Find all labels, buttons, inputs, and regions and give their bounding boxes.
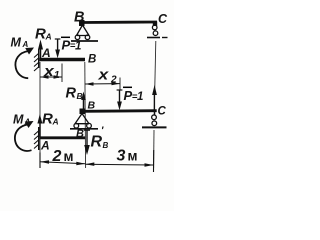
label P=1 (upper) (61, 37, 81, 52)
moment arrow M_A (lower) (15, 121, 34, 151)
dimension x1 (40, 63, 62, 82)
moment arrow M_A (upper) (15, 48, 34, 79)
svg-text:A: A (40, 139, 50, 153)
middle beam B-C (82, 109, 157, 112)
svg-text:C: C (158, 12, 168, 26)
svg-text:B: B (103, 141, 109, 150)
svg-text:B: B (88, 54, 96, 66)
load arrow P=1 (upper) (55, 39, 61, 58)
projection line at C (upper part) (154, 41, 156, 110)
ground line under B (upper) (71, 40, 98, 42)
svg-text:M: M (11, 36, 22, 50)
svg-text:3: 3 (117, 148, 126, 165)
svg-text:2: 2 (110, 75, 117, 86)
svg-text:R: R (66, 86, 77, 102)
ground line under C (upper) (147, 37, 160, 39)
label P=1 (middle) (123, 87, 143, 103)
dimension x2 (85, 67, 120, 90)
svg-text:2: 2 (52, 148, 62, 165)
svg-text:B: B (77, 91, 83, 101)
svg-text:1: 1 (54, 70, 60, 81)
fixed support at A (lower): wall line + hatching (34, 127, 39, 150)
svg-text:B: B (74, 10, 84, 26)
svg-text:м: м (64, 149, 74, 164)
reaction arrow R_A (upper) (38, 40, 43, 60)
pin nub at C end of upper beam (153, 22, 157, 27)
svg-text:C: C (158, 106, 167, 118)
projection line at C (lower part) (153, 130, 155, 168)
roller support B (upper) (75, 25, 90, 40)
svg-text:x: x (97, 67, 109, 84)
svg-text:1: 1 (137, 91, 143, 103)
svg-text:A: A (24, 118, 31, 127)
ground line under C (middle) (142, 126, 167, 128)
link support C (middle): two circles (152, 112, 157, 126)
reaction arrow R_B (middle) (81, 92, 86, 112)
projection line at A (x=40) (39, 62, 41, 168)
svg-text:A: A (22, 40, 29, 49)
fixed support at A (upper): wall line + hatching (34, 50, 39, 72)
svg-text:м: м (128, 149, 138, 164)
pin at B (middle beam) (80, 109, 86, 115)
upper beam B-C (82, 21, 157, 24)
dimension line 2m (40, 148, 85, 168)
svg-text:1: 1 (75, 41, 81, 53)
lower beam A-B (40, 136, 86, 139)
projection line at B (x=85) (84, 62, 87, 168)
dimension line 3m (85, 148, 153, 173)
upper beam A-B (40, 58, 86, 61)
svg-text:R: R (42, 111, 53, 128)
load arrow P=1 (middle) (117, 90, 123, 110)
reaction arrow R_A (lower) (37, 114, 42, 137)
reaction arrow at C pointing up to middle beam (152, 85, 157, 111)
roller support B (middle) (74, 114, 91, 129)
svg-text:R: R (35, 26, 46, 43)
svg-text:A: A (45, 32, 52, 42)
force arrow R'_B (lower) (84, 130, 90, 155)
pin at B (upper beam) (79, 20, 85, 26)
svg-text:x: x (43, 63, 55, 80)
ground line under B (middle) (70, 128, 98, 130)
svg-text:A: A (52, 117, 59, 127)
svg-text:M: M (13, 113, 24, 127)
link support C (upper): two circles (152, 25, 157, 35)
svg-text:B: B (88, 100, 96, 112)
svg-text:B: B (76, 128, 84, 140)
